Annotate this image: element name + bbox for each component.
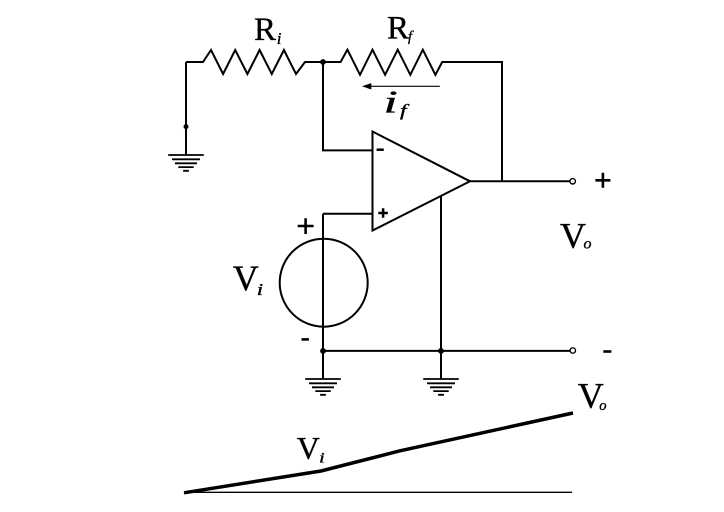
svg-text:V: V	[297, 430, 320, 466]
svg-text:R: R	[254, 12, 276, 48]
svg-text:V: V	[560, 216, 586, 256]
svg-text:i: i	[319, 450, 325, 466]
svg-text:o: o	[584, 236, 592, 253]
svg-text:i: i	[277, 29, 282, 48]
svg-text:i: i	[384, 85, 398, 120]
svg-text:R: R	[387, 11, 409, 47]
svg-text:i: i	[257, 281, 263, 300]
svg-text:V: V	[233, 258, 259, 298]
svg-text:o: o	[599, 398, 606, 414]
